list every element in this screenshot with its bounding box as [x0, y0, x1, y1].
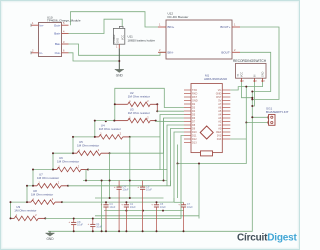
svg-text:10uF: 10uF — [187, 205, 193, 209]
svg-text:CírcuitDigest: CírcuitDigest — [237, 233, 298, 244]
svg-text:10uF: 10uF — [123, 187, 129, 191]
svg-text:D13: D13 — [192, 142, 197, 145]
svg-text:10uF: 10uF — [109, 205, 115, 209]
svg-text:In+: In+ — [40, 23, 45, 27]
svg-text:ARDUINONANO: ARDUINONANO — [204, 77, 228, 81]
svg-text:GND: GND — [262, 71, 265, 77]
svg-text:10uF: 10uF — [96, 225, 102, 229]
svg-text:Out+: Out+ — [54, 23, 61, 27]
svg-text:GND: GND — [46, 237, 54, 241]
svg-text:Out-: Out- — [55, 51, 61, 55]
svg-text:VCC: VCC — [241, 72, 244, 77]
svg-text:10uF: 10uF — [77, 223, 83, 227]
svg-text:10uF: 10uF — [146, 187, 152, 191]
svg-text:1M Ohm resistor: 1M Ohm resistor — [57, 160, 79, 164]
svg-text:GND: GND — [117, 38, 120, 44]
svg-text:VCC: VCC — [122, 35, 125, 40]
svg-text:RECORDINGSWITCH: RECORDINGSWITCH — [233, 59, 267, 63]
svg-text:1M Ohm resistor: 1M Ohm resistor — [128, 111, 150, 115]
svg-text:1M Ohm resistor: 1M Ohm resistor — [37, 176, 59, 180]
svg-text:D13: D13 — [217, 138, 222, 141]
svg-text:BOUT-: BOUT- — [221, 51, 230, 55]
svg-text:BUZZERPH-KIT: BUZZERPH-KIT — [266, 110, 289, 114]
svg-text:GND: GND — [116, 74, 124, 78]
svg-text:18650 battery holder: 18650 battery holder — [128, 39, 156, 43]
svg-text:1M Ohm resistor: 1M Ohm resistor — [99, 127, 121, 131]
svg-text:1M Ohm resistor: 1M Ohm resistor — [31, 192, 53, 196]
svg-text:1M Ohm resistor: 1M Ohm resistor — [77, 143, 99, 147]
svg-text:Bat-: Bat- — [55, 42, 61, 46]
svg-text:1M Ohm resistor: 1M Ohm resistor — [128, 95, 150, 99]
svg-text:BOUT+: BOUT+ — [220, 25, 230, 29]
svg-text:BIN-: BIN- — [168, 51, 174, 55]
svg-text:POWER: POWER — [114, 34, 116, 43]
svg-text:10uF: 10uF — [160, 205, 166, 209]
svg-text:In-: In- — [40, 51, 44, 55]
svg-text:IN: IN — [254, 74, 257, 77]
svg-text:1M Ohm resistor: 1M Ohm resistor — [14, 209, 36, 213]
svg-text:BIN+: BIN+ — [168, 25, 175, 29]
svg-text:Bat+: Bat+ — [54, 32, 61, 36]
svg-text:DC-DC Booster: DC-DC Booster — [168, 15, 189, 19]
svg-text:10uF: 10uF — [130, 205, 136, 209]
